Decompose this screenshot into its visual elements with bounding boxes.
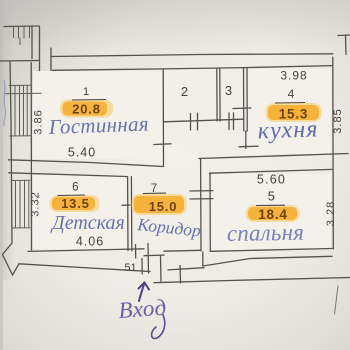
- svg-text:5.40: 5.40: [68, 146, 96, 160]
- svg-text:3.86: 3.86: [33, 109, 45, 134]
- svg-text:4: 4: [288, 87, 295, 101]
- svg-text:6: 6: [72, 182, 78, 194]
- svg-text:4.06: 4.06: [76, 235, 104, 249]
- svg-text:3: 3: [225, 83, 232, 98]
- svg-text:3.98: 3.98: [280, 69, 307, 83]
- svg-text:5: 5: [268, 189, 275, 204]
- svg-text:3.85: 3.85: [332, 108, 344, 133]
- svg-text:3.28: 3.28: [325, 201, 337, 226]
- svg-text:2: 2: [181, 84, 188, 99]
- svg-text:5.60: 5.60: [257, 173, 286, 187]
- svg-text:кухня: кухня: [257, 116, 319, 144]
- svg-text:Вход: Вход: [118, 295, 168, 323]
- svg-text:спальня: спальня: [227, 220, 305, 246]
- svg-text:1: 1: [83, 86, 89, 98]
- svg-text:13.5: 13.5: [61, 196, 90, 211]
- svg-text:51: 51: [124, 262, 136, 274]
- svg-text:Гостинная: Гостинная: [47, 112, 149, 140]
- svg-text:3.32: 3.32: [30, 191, 42, 216]
- svg-text:Детская: Детская: [50, 212, 125, 234]
- svg-text:15.0: 15.0: [149, 199, 178, 214]
